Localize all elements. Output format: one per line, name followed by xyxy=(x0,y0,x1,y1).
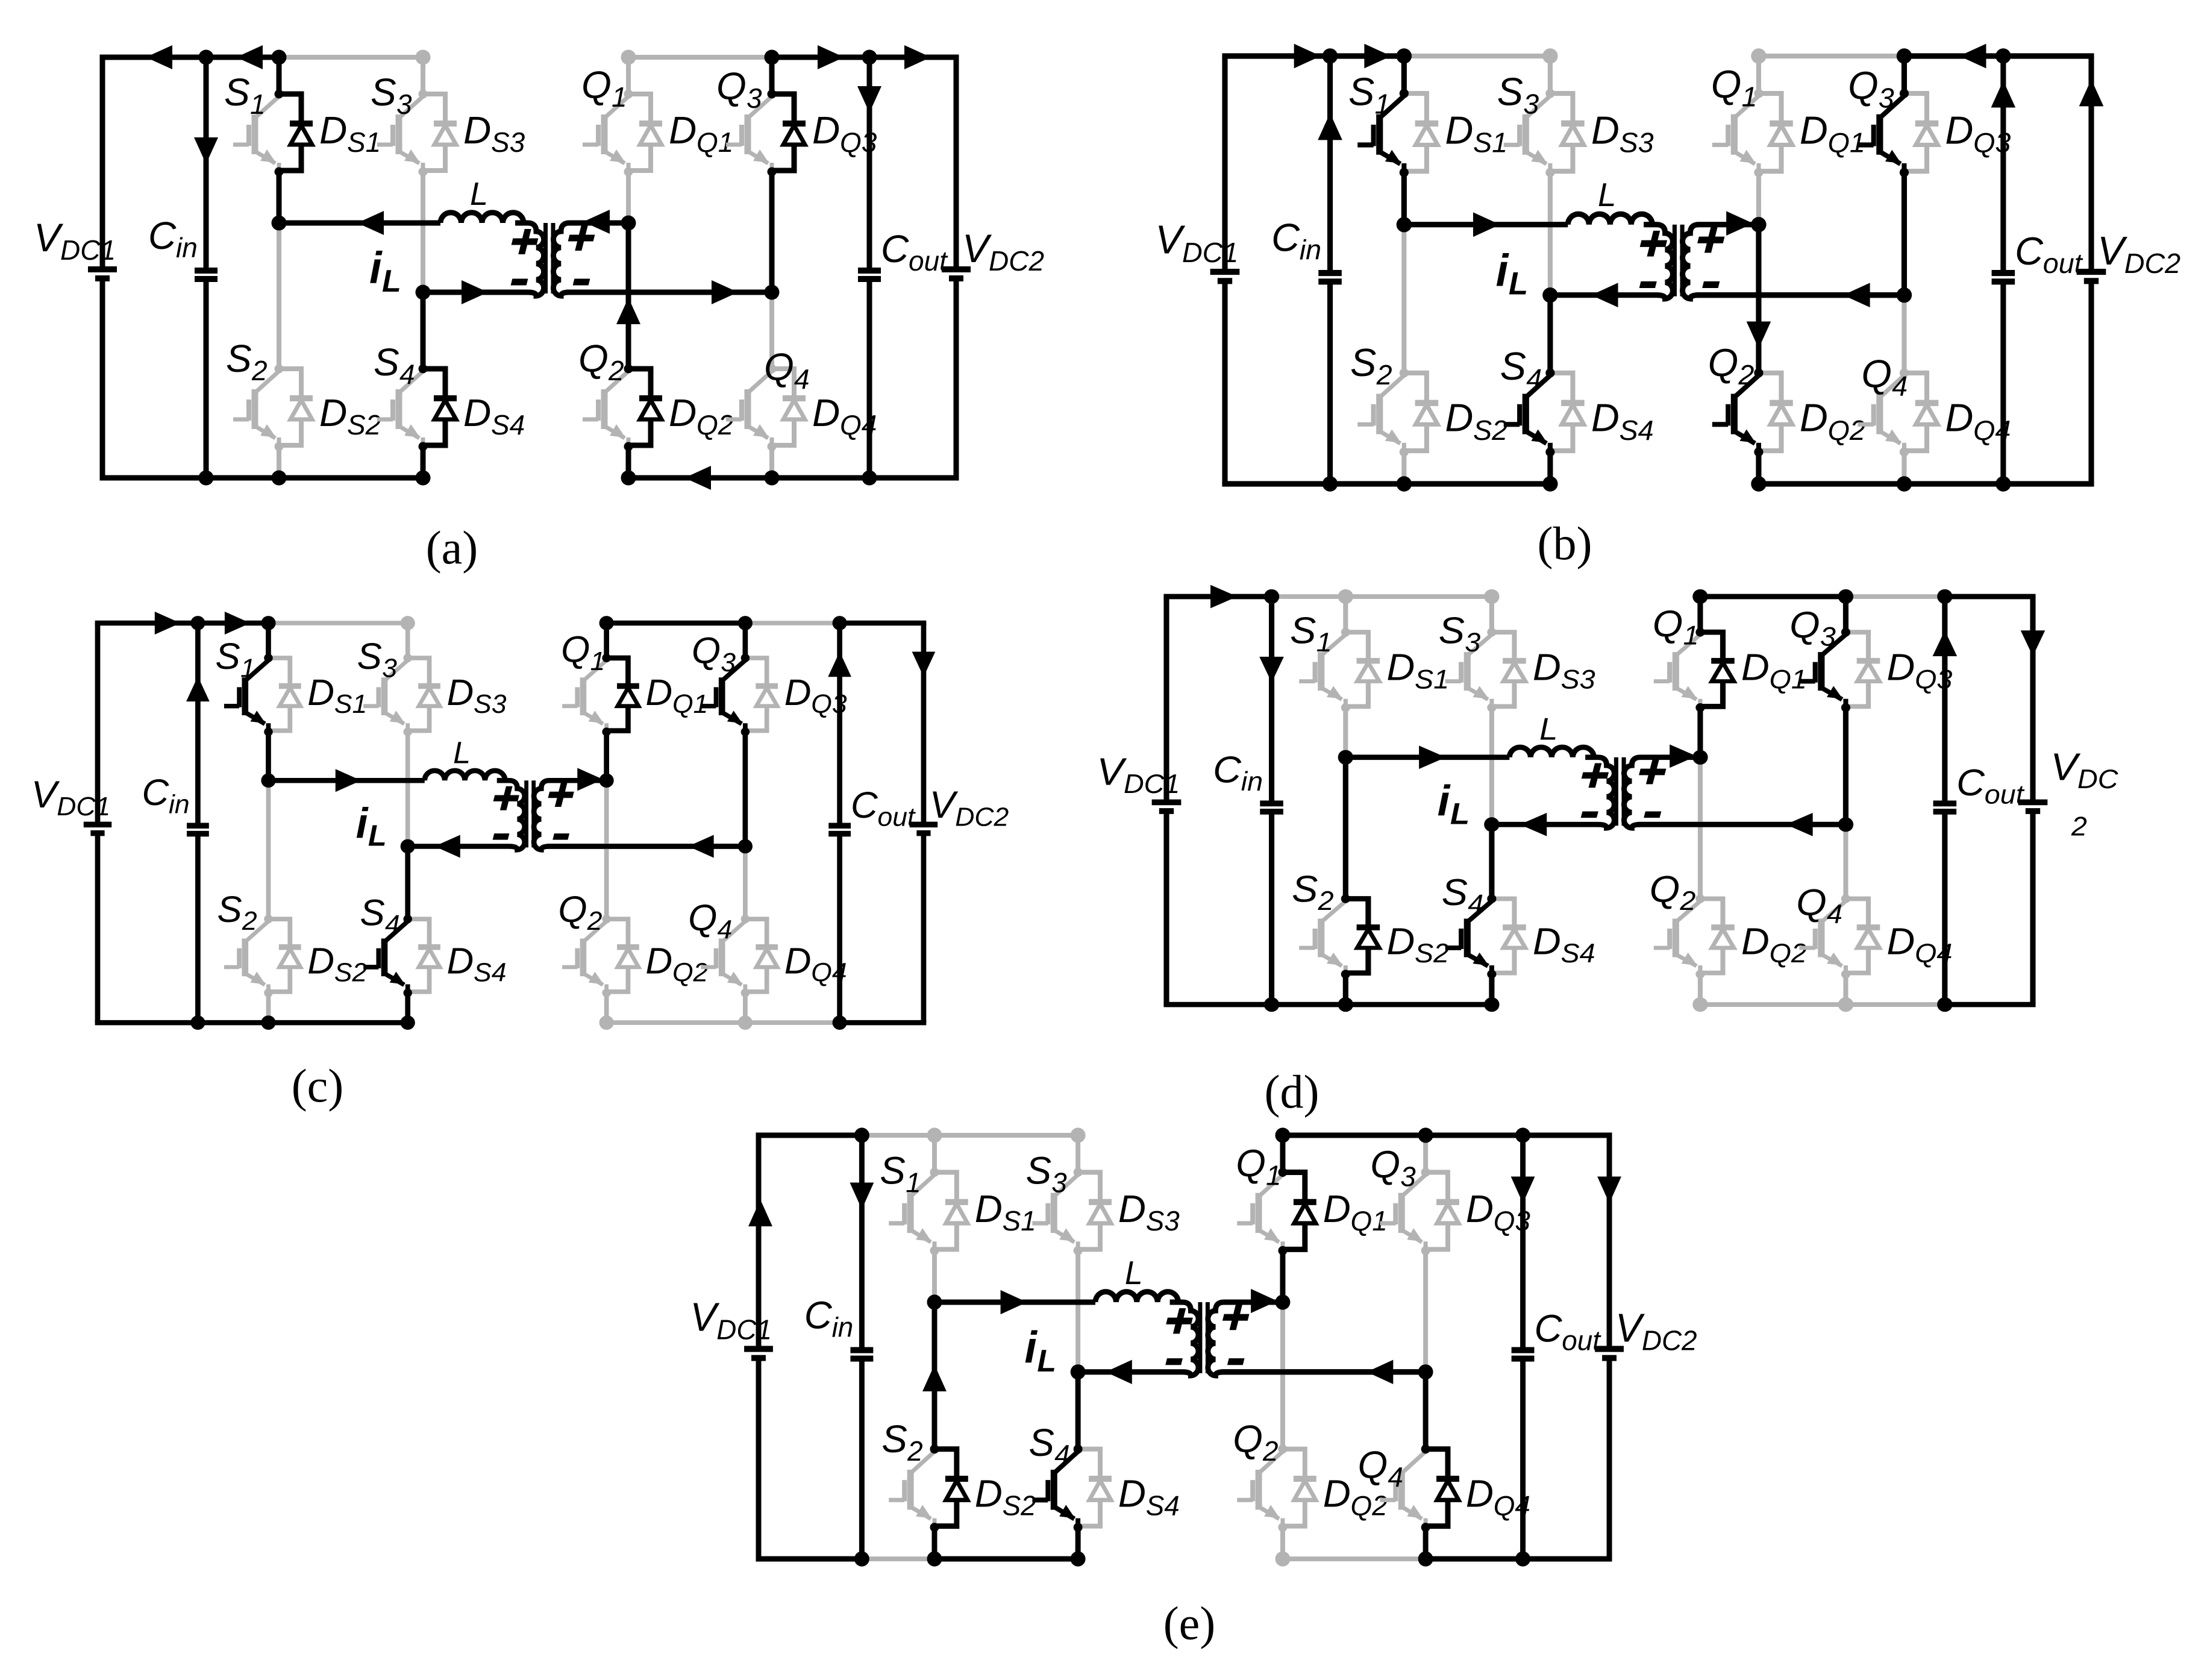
svg-text:S2: S2 xyxy=(1415,938,1449,968)
wire Q2 emitter to bottom rail (e) xyxy=(1280,1528,1285,1559)
IGBT S1 (a) xyxy=(233,96,279,172)
label DQ2 (c) xyxy=(645,941,708,988)
svg-text:Q: Q xyxy=(1861,351,1892,395)
svg-text:i: i xyxy=(1496,245,1510,295)
label Q4 (b) xyxy=(1861,351,1908,401)
polarity + secondary (e) xyxy=(1220,1305,1251,1330)
wire Q2 emitter to bottom rail (d) xyxy=(1698,974,1703,1005)
label Q3 (a) xyxy=(716,64,762,114)
polarity + secondary (a) xyxy=(566,225,597,251)
wire Q3 collector, top rail to Q3 (d) xyxy=(1843,597,1848,632)
svg-text:Q2: Q2 xyxy=(1770,938,1807,968)
label VDC1 (c) xyxy=(31,774,111,821)
label DQ3 (e) xyxy=(1466,1187,1530,1236)
node S3 collector stub (c) xyxy=(403,654,412,662)
label Cin (e) xyxy=(804,1293,854,1343)
svg-text:DC2: DC2 xyxy=(2124,248,2180,279)
svg-text:D: D xyxy=(1945,395,1973,439)
label DQ4 (e) xyxy=(1466,1472,1530,1521)
transformer core (e) xyxy=(1200,1302,1207,1373)
svg-text:DC1: DC1 xyxy=(57,792,110,822)
label S3 (d) xyxy=(1439,610,1481,657)
diode DQ3 (e) xyxy=(1426,1172,1459,1249)
transformer primary winding (d) xyxy=(1492,757,1615,828)
diode DS1 (a) xyxy=(279,94,313,171)
node Q3 collector stub (c) xyxy=(741,654,750,662)
caption (a) xyxy=(426,521,478,574)
polarity + primary (c) xyxy=(491,786,522,810)
svg-text:L: L xyxy=(1450,796,1470,830)
wire S1 emitter to node A (d) xyxy=(1343,707,1348,757)
wire node B to S4 (a) xyxy=(421,292,426,369)
label DQ4 (c) xyxy=(784,941,847,988)
polarity - primary (c) xyxy=(493,833,509,840)
diode DS3 (a) xyxy=(423,94,457,171)
svg-text:1: 1 xyxy=(1266,1159,1282,1191)
svg-text:S: S xyxy=(1290,610,1316,651)
node S4 collector stub (b) xyxy=(1545,368,1554,377)
svg-text:S: S xyxy=(881,1417,907,1460)
label S4 (b) xyxy=(1500,344,1542,394)
wire bottom rail, Cin to S2 leg (c) xyxy=(198,1020,268,1026)
node Q1 emitter stub (e) xyxy=(1278,1246,1287,1255)
svg-text:Q2: Q2 xyxy=(1351,1490,1388,1521)
svg-text:D: D xyxy=(447,672,474,713)
svg-text:Q: Q xyxy=(692,630,721,671)
node S2 collector stub (e) xyxy=(930,1444,939,1453)
wire S3 collector, top rail to S3 (a) xyxy=(421,57,425,94)
label Cout (c) xyxy=(851,785,916,832)
wire Q4 emitter to bottom rail (b) xyxy=(1902,452,1906,484)
wire node A to inductor (c) xyxy=(268,778,424,783)
svg-text:Q: Q xyxy=(1848,63,1879,107)
svg-text:Q: Q xyxy=(1370,1142,1400,1186)
svg-text:L: L xyxy=(368,819,387,852)
current direction arrows (d) xyxy=(1210,585,2045,836)
svg-text:4: 4 xyxy=(717,915,732,945)
diode DS4 (c) xyxy=(408,919,440,992)
wire top rail, Q3 to Cout (e) xyxy=(1426,1133,1523,1138)
IGBT Q3 (a) xyxy=(726,96,772,172)
caption (e) xyxy=(1163,1597,1216,1649)
svg-text:1: 1 xyxy=(240,654,255,683)
node Q2 emitter stub (c) xyxy=(602,989,611,997)
wire bottom rail, Cout to VDC2 (b) xyxy=(2003,481,2094,487)
wire S4 emitter to bottom rail (d) xyxy=(1489,974,1494,1005)
svg-text:(a): (a) xyxy=(426,521,478,574)
IGBT Q2 (b) xyxy=(1712,375,1759,452)
polarity + primary (a) xyxy=(509,229,540,254)
svg-text:3: 3 xyxy=(1523,89,1539,120)
node Q1 emitter stub (d) xyxy=(1695,703,1704,712)
label Q1 (d) xyxy=(1653,603,1699,650)
node S1 collector stub (a) xyxy=(275,90,284,99)
svg-text:D: D xyxy=(463,391,491,434)
node Q1 emitter stub (c) xyxy=(602,727,611,736)
wire Q3 emitter to node D (d) xyxy=(1843,707,1848,824)
wire S1 collector, top rail to S1 (c) xyxy=(266,623,271,658)
svg-text:4: 4 xyxy=(1468,889,1483,920)
DC source VDC2 battery (a) xyxy=(942,57,971,478)
IGBT Q1 (b) xyxy=(1712,96,1759,172)
capacitor Cout (d) xyxy=(1933,597,1957,1005)
IGBT Q4 (a) xyxy=(726,371,772,447)
label DS4 (d) xyxy=(1533,921,1595,968)
svg-text:V: V xyxy=(962,226,992,271)
svg-text:D: D xyxy=(645,672,672,713)
diode DQ2 (e) xyxy=(1283,1449,1316,1526)
wire node A to inductor (a) xyxy=(279,221,440,226)
IGBT Q2 (a) xyxy=(583,371,628,447)
diode DS4 (b) xyxy=(1550,373,1585,451)
wire S1 collector, top rail to S1 (d) xyxy=(1343,597,1348,632)
wire bottom rail, Cout to VDC2 (d) xyxy=(1945,1002,2036,1008)
transformer secondary winding (e) xyxy=(1208,1302,1426,1376)
node S3 emitter stub (c) xyxy=(403,727,412,736)
label S4 (e) xyxy=(1028,1420,1069,1470)
svg-text:3: 3 xyxy=(1465,627,1480,657)
IGBT Q3 (e) xyxy=(1380,1174,1426,1250)
svg-text:(e): (e) xyxy=(1163,1597,1216,1649)
wire top rail, S1 to S3 leg (a) xyxy=(279,55,423,60)
wire bottom rail, S2 to S4 leg (c) xyxy=(268,1020,407,1026)
svg-text:in: in xyxy=(1241,766,1263,797)
junction dots (a) xyxy=(199,50,877,486)
label VDC2 (d) xyxy=(2050,745,2118,842)
svg-text:S4: S4 xyxy=(474,958,506,988)
node S3 collector stub (e) xyxy=(1074,1168,1083,1177)
svg-text:D: D xyxy=(1466,1472,1494,1515)
transformer secondary winding (c) xyxy=(534,780,745,850)
node Q2 collector stub (e) xyxy=(1278,1444,1287,1453)
DC source VDC1 battery (d) xyxy=(1152,597,1182,1005)
wire Q3 emitter to node D (e) xyxy=(1423,1250,1428,1371)
wire node A to inductor (b) xyxy=(1404,222,1568,227)
diode DQ3 (d) xyxy=(1845,632,1880,706)
label DQ1 (a) xyxy=(669,108,733,158)
label DS1 (d) xyxy=(1386,647,1449,694)
wire node A to S2 (b) xyxy=(1401,225,1406,373)
label Q2 (c) xyxy=(558,889,602,936)
diode DS4 (d) xyxy=(1492,898,1526,973)
svg-text:V: V xyxy=(31,774,60,815)
wire Q3 collector, top rail to Q3 (c) xyxy=(742,623,748,658)
svg-text:S: S xyxy=(224,71,250,114)
label VDC2 (c) xyxy=(930,785,1009,832)
capacitor Cout (a) xyxy=(858,57,881,478)
label S2 (c) xyxy=(217,889,257,936)
polarity - primary (e) xyxy=(1166,1358,1182,1365)
label Q4 (e) xyxy=(1358,1443,1403,1493)
svg-text:C: C xyxy=(142,773,169,813)
capacitor Cin (c) xyxy=(187,623,209,1023)
wire top rail left, VDC1 to Cin (a) xyxy=(100,55,207,60)
svg-text:2: 2 xyxy=(587,907,603,936)
node Q4 emitter stub (c) xyxy=(741,989,750,997)
label S3 (b) xyxy=(1497,69,1539,119)
label Cout (a) xyxy=(881,227,948,277)
label Cout (e) xyxy=(1534,1306,1601,1356)
label DQ1 (e) xyxy=(1323,1187,1388,1236)
svg-text:S: S xyxy=(217,889,242,930)
svg-text:V: V xyxy=(1097,750,1127,793)
IGBT S3 (a) xyxy=(377,96,423,172)
svg-text:Q: Q xyxy=(578,337,609,380)
wire Q1 emitter to secondary node (b) xyxy=(1756,172,1761,224)
svg-text:Q: Q xyxy=(1650,868,1680,910)
node Q3 collector stub (e) xyxy=(1421,1168,1430,1177)
wire bottom rail, Q4 to Cout (b) xyxy=(1904,481,2003,487)
node S1 emitter stub (d) xyxy=(1341,703,1350,712)
svg-text:3: 3 xyxy=(396,89,412,120)
svg-text:(c): (c) xyxy=(292,1059,344,1112)
svg-text:Q: Q xyxy=(1796,882,1827,923)
current direction arrows (e) xyxy=(748,1176,1621,1391)
wire Q4 emitter to bottom rail (a) xyxy=(769,447,774,478)
wire bottom rail, Cin to S2 leg (d) xyxy=(1272,1002,1346,1008)
wire Q2 emitter to bottom rail (c) xyxy=(604,993,609,1023)
wire S1 emitter to node A (a) xyxy=(277,172,282,223)
svg-text:S3: S3 xyxy=(474,690,507,719)
svg-text:D: D xyxy=(1741,647,1770,688)
label DS3 (e) xyxy=(1118,1187,1180,1236)
svg-text:S1: S1 xyxy=(1473,127,1507,158)
wire Q1 emitter to secondary node (a) xyxy=(626,172,631,223)
wire top rail, Cout to VDC2 (c) xyxy=(840,621,927,626)
svg-text:D: D xyxy=(669,108,696,152)
svg-text:S4: S4 xyxy=(1561,938,1595,968)
wire secondary node to Q2 (a) xyxy=(626,223,631,369)
node S4 emitter stub (a) xyxy=(419,442,428,451)
capacitor Cin (d) xyxy=(1260,597,1283,1005)
IGBT Q2 (e) xyxy=(1237,1452,1283,1528)
IGBT Q4 (c) xyxy=(701,921,745,993)
label L (d) xyxy=(1539,712,1557,747)
svg-text:3: 3 xyxy=(1051,1167,1067,1198)
node S4 collector stub (e) xyxy=(1074,1444,1083,1453)
wire S1 emitter to node A (b) xyxy=(1401,172,1407,224)
IGBT Q1 (a) xyxy=(583,96,628,172)
label DQ1 (c) xyxy=(645,672,708,719)
svg-text:DC1: DC1 xyxy=(1182,237,1238,268)
current direction arrows (a) xyxy=(146,45,931,490)
polarity + secondary (d) xyxy=(1636,760,1668,785)
diode DS3 (c) xyxy=(408,658,440,731)
svg-text:D: D xyxy=(812,108,840,152)
wire secondary lower link to Q3Q4 node (a) xyxy=(567,290,772,295)
svg-text:DC1: DC1 xyxy=(1124,769,1180,799)
label DQ1 (d) xyxy=(1741,647,1807,694)
node Q1 collector stub (b) xyxy=(1754,89,1763,98)
svg-text:D: D xyxy=(1800,395,1828,439)
diode DS2 (c) xyxy=(268,919,301,992)
wire S3 emitter to node B (a) xyxy=(421,172,425,292)
junction dots (b) xyxy=(1323,48,2011,491)
label Q4 (a) xyxy=(764,345,810,395)
node S3 emitter stub (e) xyxy=(1074,1246,1083,1255)
svg-text:in: in xyxy=(169,790,190,820)
transformer secondary winding (a) xyxy=(553,223,772,296)
IGBT Q4 (b) xyxy=(1858,375,1904,452)
node Q4 collector stub (d) xyxy=(1841,894,1850,903)
svg-text:in: in xyxy=(1300,234,1321,266)
wire bottom rail, Q2 to Q4 leg (a) xyxy=(628,475,772,481)
svg-text:DC2: DC2 xyxy=(1642,1324,1697,1356)
svg-text:DC: DC xyxy=(2077,764,2118,794)
wire S3 emitter to node B (e) xyxy=(1075,1250,1080,1371)
node S1 emitter stub (c) xyxy=(264,727,273,736)
svg-text:D: D xyxy=(1466,1187,1494,1230)
label S2 (d) xyxy=(1292,868,1334,916)
node Q2 collector stub (b) xyxy=(1754,368,1763,377)
svg-text:i: i xyxy=(356,800,369,847)
wire node A to inductor (e) xyxy=(934,1299,1095,1305)
svg-text:C: C xyxy=(1956,762,1985,803)
svg-text:Q: Q xyxy=(716,64,747,108)
node S2 collector stub (d) xyxy=(1341,894,1350,903)
svg-text:S: S xyxy=(1350,340,1376,384)
wire node A to S2 (c) xyxy=(266,780,271,919)
wire bottom rail, Q2 to Q4 leg (d) xyxy=(1700,1002,1846,1007)
IGBT Q4 (d) xyxy=(1799,901,1845,974)
svg-text:D: D xyxy=(1323,1187,1351,1230)
svg-text:D: D xyxy=(319,108,347,152)
wire bottom rail, Cout to VDC2 (e) xyxy=(1523,1556,1612,1562)
wire S3 collector, top rail to S3 (e) xyxy=(1075,1135,1080,1172)
svg-text:D: D xyxy=(1886,647,1915,688)
label DQ2 (a) xyxy=(669,391,733,440)
wire top rail, S1 to S3 leg (e) xyxy=(934,1133,1078,1138)
wire S4 emitter to bottom rail (b) xyxy=(1547,452,1553,484)
wire node A to inductor (d) xyxy=(1345,754,1509,760)
svg-text:D: D xyxy=(1800,108,1828,152)
svg-text:Q2: Q2 xyxy=(672,958,708,988)
wire bottom rail, Cout to VDC2 (a) xyxy=(869,475,959,481)
wire Q3 emitter to node D (c) xyxy=(742,732,748,847)
capacitor Cout (b) xyxy=(1992,56,2015,484)
label DS4 (a) xyxy=(463,391,525,440)
svg-text:S3: S3 xyxy=(491,127,525,158)
svg-text:V: V xyxy=(690,1295,720,1340)
IGBT S1 (c) xyxy=(224,660,269,732)
label Cin (d) xyxy=(1213,749,1263,797)
wire bottom rail, Q2 to Q4 leg (c) xyxy=(607,1020,745,1025)
wire Q1 emitter to secondary node (e) xyxy=(1280,1250,1285,1302)
wire Q2 emitter to bottom rail (a) xyxy=(626,447,631,478)
label S1 (d) xyxy=(1290,610,1332,657)
label DS2 (a) xyxy=(319,391,381,440)
diode DS2 (a) xyxy=(279,369,313,445)
label S3 (c) xyxy=(357,636,398,683)
node S2 emitter stub (d) xyxy=(1341,970,1350,979)
diode DQ1 (e) xyxy=(1283,1172,1316,1249)
svg-text:DC2: DC2 xyxy=(955,803,1009,832)
diode DQ1 (d) xyxy=(1700,632,1735,706)
polarity + secondary (c) xyxy=(546,783,577,807)
polarity - secondary (a) xyxy=(574,279,589,286)
svg-text:4: 4 xyxy=(1388,1461,1403,1493)
svg-text:D: D xyxy=(812,391,840,434)
node Q3 collector stub (a) xyxy=(768,90,777,99)
label S3 (e) xyxy=(1025,1149,1067,1198)
svg-text:Q2: Q2 xyxy=(1828,415,1865,446)
label Q3 (c) xyxy=(692,630,736,677)
svg-text:Q: Q xyxy=(581,63,612,107)
node S2 emitter stub (b) xyxy=(1400,447,1409,456)
IGBT Q1 (d) xyxy=(1654,635,1700,707)
wire bottom rail, Q4 to Cout (a) xyxy=(772,475,869,481)
wire top rail, Q3 to Cout (a) xyxy=(772,55,869,60)
label Q1 (a) xyxy=(581,63,627,113)
diode DQ2 (c) xyxy=(607,919,639,992)
node S4 emitter stub (c) xyxy=(403,989,412,997)
svg-text:DC2: DC2 xyxy=(989,245,1044,277)
svg-text:S4: S4 xyxy=(491,409,525,440)
wire Q1 emitter to secondary node (c) xyxy=(604,732,609,781)
label L (b) xyxy=(1598,176,1616,213)
svg-text:D: D xyxy=(784,941,812,982)
label S4 (a) xyxy=(374,340,415,390)
node Q4 emitter stub (a) xyxy=(768,442,777,451)
wire node D to Q4 (d) xyxy=(1843,824,1848,898)
node Q3 emitter stub (e) xyxy=(1421,1246,1430,1255)
label S1 (e) xyxy=(880,1149,921,1198)
svg-text:S2: S2 xyxy=(1003,1490,1036,1521)
svg-text:S: S xyxy=(1028,1420,1054,1464)
IGBT S3 (e) xyxy=(1032,1174,1078,1250)
capacitor Cin (b) xyxy=(1318,56,1342,484)
transformer core (b) xyxy=(1674,225,1682,296)
svg-text:1: 1 xyxy=(590,647,606,676)
node Q2 emitter stub (b) xyxy=(1754,447,1763,456)
svg-text:S: S xyxy=(880,1149,906,1192)
svg-text:2: 2 xyxy=(1679,886,1695,916)
label Q4 (d) xyxy=(1796,882,1842,929)
IGBT S2 (e) xyxy=(889,1452,934,1528)
wire S1 emitter to node A (c) xyxy=(266,732,271,781)
wire S3 emitter to node B (b) xyxy=(1548,172,1553,295)
svg-text:Q1: Q1 xyxy=(1351,1205,1388,1236)
svg-text:D: D xyxy=(1386,647,1415,688)
svg-text:S1: S1 xyxy=(334,690,367,719)
svg-text:2: 2 xyxy=(1738,359,1754,390)
node Q1 collector stub (c) xyxy=(602,654,611,662)
label Cout (b) xyxy=(2015,229,2083,279)
wire node D to Q4 (a) xyxy=(769,292,774,369)
svg-text:Q1: Q1 xyxy=(696,127,733,158)
svg-text:DC1: DC1 xyxy=(716,1314,772,1345)
caption (b) xyxy=(1538,517,1592,569)
label Q4 (c) xyxy=(688,898,732,945)
label Cin (b) xyxy=(1271,215,1321,265)
wire S1 collector, top rail to S1 (a) xyxy=(277,57,282,94)
svg-text:S: S xyxy=(1025,1149,1051,1192)
wire S4 emitter to bottom rail (c) xyxy=(405,993,410,1023)
label L (a) xyxy=(470,176,488,212)
wire bottom rail, Q2 to Q4 leg (b) xyxy=(1759,481,1905,487)
wire top rail, Cin to S1 leg (d) xyxy=(1272,594,1346,599)
wire S2 emitter to bottom rail (c) xyxy=(266,993,271,1023)
label Q2 (d) xyxy=(1650,868,1696,916)
svg-text:C: C xyxy=(1271,215,1300,259)
diode DQ4 (c) xyxy=(745,919,778,992)
wire S1 collector, top rail to S1 (b) xyxy=(1401,56,1407,93)
DC source VDC1 battery (e) xyxy=(744,1135,773,1559)
svg-text:Q: Q xyxy=(561,629,590,670)
label S2 (a) xyxy=(226,337,268,386)
wire top rail, Q1 to Q3 leg (b) xyxy=(1759,54,1905,58)
svg-text:D: D xyxy=(1118,1187,1146,1230)
